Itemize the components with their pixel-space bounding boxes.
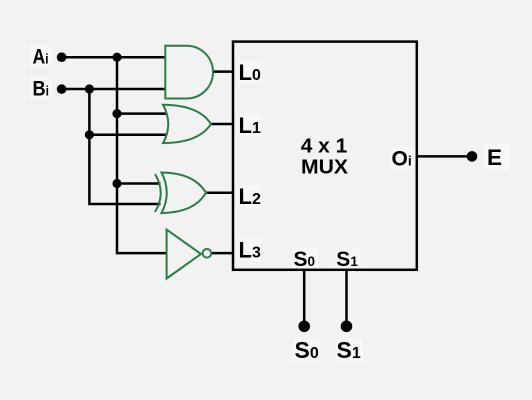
svg-text:4 x 1: 4 x 1: [301, 135, 348, 157]
svg-text:E: E: [487, 145, 502, 170]
svg-text:MUX: MUX: [301, 156, 348, 179]
